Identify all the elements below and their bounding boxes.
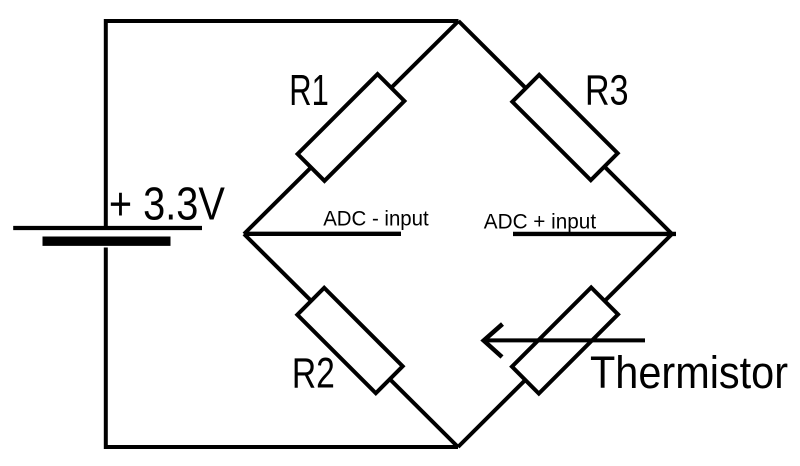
wire: bridge edge left-top (R1 branch) (244, 21, 459, 234)
resistor R2 body (297, 288, 402, 393)
battery BT1 negative plate (43, 237, 171, 246)
svg-text:ADC + input: ADC + input (484, 211, 596, 234)
svg-text:R2: R2 (292, 351, 335, 398)
thermistor RT1 body (512, 287, 618, 393)
wire: battery negative to bottom rail (106, 248, 458, 448)
svg-text:+ 3.3V: + 3.3V (109, 177, 225, 229)
battery BT1 positive plate (13, 226, 202, 230)
node wire: ADC - input (left bridge node) (244, 232, 401, 236)
resistor R1 body (298, 74, 405, 181)
svg-text:R3: R3 (585, 68, 629, 115)
resistor R3 body (512, 75, 617, 180)
wire: bridge edge top-right (R3 branch) (459, 21, 673, 234)
thermistor arrow shaft (484, 338, 645, 342)
wire: bridge edge right-bottom (thermistor branch) (458, 234, 672, 447)
svg-text:Thermistor: Thermistor (590, 347, 788, 398)
wire: battery positive to top rail (106, 21, 459, 226)
svg-text:ADC - input: ADC - input (323, 207, 429, 230)
thermistor arrow head (484, 324, 503, 357)
node wire: ADC + input (right bridge node) (513, 232, 676, 236)
svg-text:R1: R1 (289, 67, 329, 115)
wire: bridge edge left-bottom (R2 branch) (244, 234, 458, 447)
